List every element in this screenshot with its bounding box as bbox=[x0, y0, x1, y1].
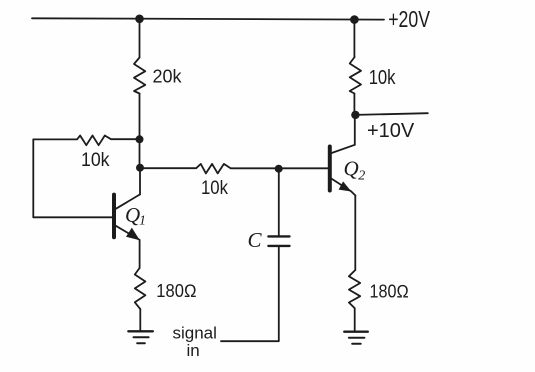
wire R180 to ground right bbox=[354, 308, 356, 331]
wire 20k to node A bbox=[139, 94, 141, 169]
node C (capacitor tap) bbox=[275, 165, 283, 173]
svg-text:1: 1 bbox=[139, 214, 146, 229]
node top-right junction bbox=[350, 15, 359, 24]
svg-text:+10V: +10V bbox=[367, 120, 415, 142]
ground right bbox=[344, 332, 368, 344]
svg-text:in: in bbox=[187, 341, 200, 360]
svg-text:10k: 10k bbox=[201, 178, 228, 199]
resistor 20k bbox=[134, 58, 145, 94]
svg-text:Q: Q bbox=[344, 157, 359, 181]
node top-left junction bbox=[135, 14, 144, 23]
resistor 180 ohm left bbox=[135, 268, 146, 309]
resistor 10k right bbox=[350, 57, 361, 94]
wire base of Q1 bbox=[33, 216, 112, 218]
svg-text:C: C bbox=[248, 228, 263, 252]
svg-text:+20V: +20V bbox=[388, 6, 430, 32]
wire node C down to capacitor bbox=[278, 168, 280, 235]
node B (divider / base node) bbox=[136, 164, 144, 172]
wire capacitor to signal-in line bbox=[221, 247, 279, 341]
resistor 180 ohm right bbox=[349, 270, 360, 308]
node D (+10V node) bbox=[351, 111, 359, 119]
wire Q1 emitter to R 180 bbox=[139, 240, 141, 268]
capacitor C bbox=[268, 236, 289, 246]
wire Q2 emitter to R 180 right bbox=[354, 196, 356, 271]
ground left bbox=[128, 331, 152, 343]
wire from top rail to R 20k bbox=[139, 19, 141, 58]
svg-text:Q: Q bbox=[125, 203, 140, 227]
svg-text:signal: signal bbox=[173, 324, 217, 343]
svg-text:10k: 10k bbox=[369, 67, 397, 89]
svg-text:2: 2 bbox=[358, 169, 365, 184]
svg-text:180Ω: 180Ω bbox=[370, 282, 409, 302]
svg-text:10k: 10k bbox=[81, 150, 110, 171]
resistor 10k feedback bbox=[33, 136, 139, 146]
wire +10V stub bbox=[355, 113, 427, 115]
svg-text:20k: 20k bbox=[153, 67, 183, 87]
wire top +20V rail bbox=[32, 18, 384, 19]
wire 10k to node D bbox=[353, 94, 355, 115]
svg-text:180Ω: 180Ω bbox=[156, 281, 196, 301]
wire feedback left vertical bbox=[32, 139, 34, 217]
transistor Q2 bbox=[330, 115, 356, 196]
transistor Q1 bbox=[114, 168, 140, 241]
resistor 10k series (node B to Q2 base) bbox=[142, 164, 328, 174]
wire top rail to R 10k right bbox=[353, 20, 355, 57]
node A (feedback tap) bbox=[136, 135, 144, 143]
wire R180 to ground bbox=[139, 309, 141, 331]
